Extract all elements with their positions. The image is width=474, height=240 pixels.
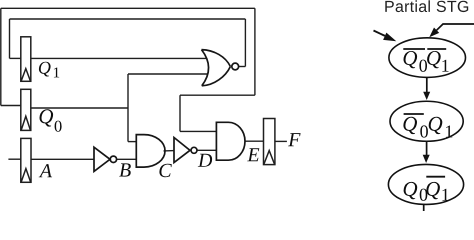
latch Q0 clock triangle [21, 116, 30, 130]
wire outer feedback middle horizontal [180, 94, 255, 96]
label C [159, 164, 171, 177]
STG outgoing edge stub [423, 205, 425, 211]
inverter B [94, 147, 110, 171]
inverter B bubble [110, 156, 116, 162]
latch Q1 clock triangle [21, 69, 30, 82]
wire inner feedback top horizontal [10, 18, 246, 20]
wire inner feedback right vertical [244, 19, 246, 67]
wire outer feedback top horizontal [1, 7, 255, 9]
label F [288, 133, 301, 146]
wire Q0 output [31, 107, 128, 109]
wire D output to AND E bottom input [197, 149, 217, 151]
NOR gate output bubble [232, 63, 239, 70]
wire input A stub [8, 158, 21, 160]
STG state ellipse 1 [389, 38, 466, 78]
NOR gate body [202, 50, 231, 86]
STG state ellipse 2 [390, 101, 463, 141]
wire F output [275, 140, 287, 142]
wire outer feedback middle vertical [179, 95, 181, 131]
STG edge 2 to 3 [423, 141, 430, 163]
STG incoming edge left [374, 31, 397, 42]
STG edge 1 to 2 [423, 77, 430, 100]
wire E output to latch F [245, 140, 264, 142]
latch A clock triangle [21, 169, 31, 183]
caption Partial STG [385, 0, 468, 12]
wire C output to inverter D [164, 150, 175, 152]
inverter D bubble [191, 147, 197, 153]
wire to NAND C top input [128, 141, 137, 143]
STG state 3 label Q0 Q1bar [404, 182, 418, 199]
label B [119, 163, 131, 176]
wire Q0 branch vertical [127, 74, 129, 142]
latch F clock triangle [264, 151, 274, 164]
inverter D [174, 138, 190, 163]
STG state ellipse 3 [388, 164, 463, 204]
wire to latch Q1 D input [10, 57, 22, 59]
wire outer feedback right vertical [254, 8, 256, 95]
latch Q1 [21, 37, 31, 82]
latch F [264, 119, 275, 165]
label E [247, 148, 259, 161]
wire NOR output [238, 66, 245, 68]
wire B output to NAND C bottom input [117, 158, 137, 160]
label D [198, 154, 212, 167]
label Q1 [39, 62, 51, 77]
wire Q1 output to NOR top input [31, 57, 207, 59]
latch Q0 [21, 89, 31, 130]
label A [39, 164, 52, 177]
wire A output to inverter B [31, 158, 95, 160]
STG state 2 label Q0bar Q1 [403, 117, 417, 134]
wire inner feedback left vertical [9, 19, 11, 58]
latch A [21, 138, 31, 182]
STG incoming edge right [429, 24, 474, 37]
wire to NOR bottom input [128, 73, 207, 75]
label Q0 [40, 109, 54, 126]
wire to latch Q0 D input [1, 105, 22, 107]
wire to AND E top input [180, 130, 217, 132]
NAND gate C body [136, 135, 165, 168]
wire outer feedback left vertical [0, 8, 2, 105]
STG state 1 label Q0bar Q1bar [404, 51, 418, 68]
AND gate E body [216, 122, 245, 160]
